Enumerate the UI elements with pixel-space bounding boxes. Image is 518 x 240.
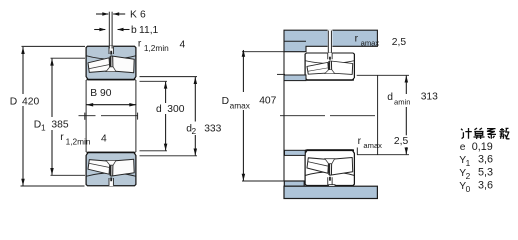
shaft shoulder strip bottom	[285, 150, 306, 155]
dimension D1 385	[34, 58, 85, 175]
svg-text:3,6: 3,6	[478, 179, 493, 191]
svg-text:b: b	[131, 25, 137, 36]
dimension K 6	[96, 9, 146, 20]
housing band bottom	[284, 186, 377, 198]
svg-text:r: r	[60, 132, 64, 143]
svg-text:2: 2	[192, 126, 197, 136]
数	[500, 128, 510, 139]
svg-text:6: 6	[140, 9, 146, 20]
svg-text:385: 385	[51, 120, 68, 131]
label r 1,2min 4 (top right)	[138, 39, 186, 53]
svg-text:2,5: 2,5	[394, 136, 409, 147]
svg-text:11,1: 11,1	[139, 25, 159, 36]
系	[487, 129, 496, 139]
svg-text:B: B	[90, 88, 97, 99]
bearing upper section (right view)	[305, 53, 354, 80]
svg-text:300: 300	[167, 104, 184, 115]
dimension b 11,1	[94, 25, 158, 36]
svg-text:313: 313	[421, 91, 438, 102]
svg-text:407: 407	[259, 96, 276, 107]
groove gap in housing band	[328, 30, 333, 48]
svg-text:4: 4	[180, 40, 186, 51]
计	[461, 128, 472, 139]
dimension B 90 (width)	[86, 88, 136, 106]
centerline left view	[79, 113, 138, 120]
svg-text:r: r	[358, 136, 362, 147]
housing band top	[284, 30, 377, 52]
ext stub at shoulder level	[277, 73, 285, 75]
svg-text:2,5: 2,5	[392, 37, 407, 48]
table row e 0,19	[460, 141, 493, 153]
K groove projection lines	[109, 12, 112, 49]
centerline right view	[280, 115, 375, 117]
svg-text:d: d	[387, 92, 393, 103]
dimension d2 333	[140, 77, 222, 156]
svg-text:420: 420	[22, 96, 39, 107]
svg-text:1: 1	[41, 122, 46, 132]
dimension d amin 313	[357, 75, 438, 154]
svg-text:1: 1	[466, 158, 471, 168]
svg-text:amax: amax	[361, 38, 380, 47]
housing shoulder bottom-left	[284, 181, 304, 186]
svg-text:amax: amax	[230, 101, 251, 111]
svg-text:3,6: 3,6	[478, 154, 493, 166]
table row Y2 5,3	[459, 167, 493, 181]
svg-text:1,2min: 1,2min	[144, 43, 169, 53]
bearing upper section	[86, 46, 136, 80]
svg-text:90: 90	[100, 88, 112, 99]
svg-text:4: 4	[101, 134, 107, 145]
svg-text:e: e	[460, 142, 466, 153]
table row Y0 3,6	[459, 179, 493, 194]
svg-text:1,2min: 1,2min	[66, 137, 91, 147]
svg-text:0,19: 0,19	[472, 141, 493, 153]
svg-text:0: 0	[466, 184, 471, 194]
groove notch bottom	[329, 185, 335, 186]
label r amax 2,5 (bottom)	[357, 136, 408, 155]
dimension Damax 407	[222, 50, 284, 181]
dimension D 420 (left outer)	[10, 46, 85, 186]
svg-text:amax: amax	[363, 141, 382, 150]
label r amax 2,5 (top)	[355, 34, 407, 48]
dimension d 300 (bore)	[140, 81, 185, 151]
svg-text:d: d	[156, 104, 162, 115]
label r 1,2min 4 (bottom left)	[60, 132, 107, 147]
算	[474, 128, 485, 139]
inner ring side faces through bore	[86, 80, 136, 152]
svg-text:333: 333	[204, 123, 221, 134]
svg-text:K: K	[130, 9, 137, 20]
shaft left end face	[283, 52, 285, 181]
svg-text:D: D	[10, 96, 17, 107]
table row Y1 3,6	[459, 154, 493, 168]
svg-text:5,3: 5,3	[478, 167, 493, 179]
oil hole lines right view	[328, 31, 331, 54]
header 计算系数 (drawn as paths; CJK font not available)	[461, 128, 510, 139]
svg-text:r: r	[355, 34, 359, 45]
shaft right end face	[377, 75, 379, 154]
bearing lower section (right view)	[305, 150, 354, 186]
shaft shoulder strip top	[284, 75, 306, 81]
svg-text:D: D	[222, 96, 229, 107]
svg-text:2: 2	[466, 171, 471, 181]
svg-text:r: r	[138, 39, 142, 50]
bearing lower section	[86, 152, 136, 186]
svg-text:amin: amin	[394, 98, 410, 107]
